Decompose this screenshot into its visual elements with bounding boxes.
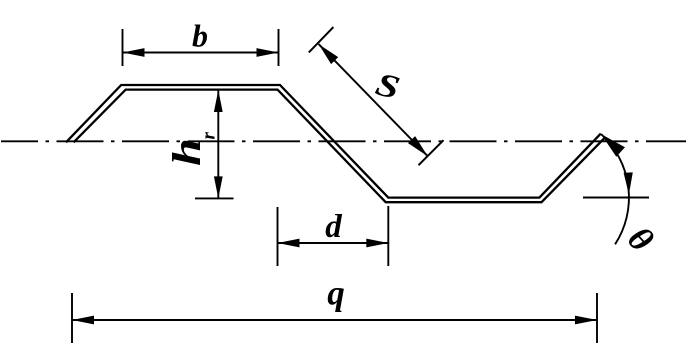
dimension S arrow bottom	[408, 136, 428, 156]
svg-text:h: h	[165, 138, 209, 166]
centerline (dash-dot axis)	[1, 140, 686, 142]
dimension q extension line left	[71, 293, 73, 343]
dimension h_r line	[217, 90, 219, 198]
dimension q arrow left	[72, 316, 94, 325]
dimension d arrow right	[366, 239, 388, 248]
svg-text:d: d	[325, 209, 342, 245]
dimension b line	[123, 52, 279, 54]
dimension S tick bottom	[419, 140, 444, 165]
angle theta reference line (bottom flange level)	[583, 197, 649, 199]
dimension b extension line left	[122, 29, 124, 66]
label theta	[620, 219, 661, 259]
label S	[372, 66, 404, 107]
dimension q extension line right	[596, 293, 598, 343]
angle theta arrow at reference line	[624, 172, 633, 194]
label q	[327, 274, 345, 313]
label b	[192, 18, 208, 54]
angle theta arrow at web	[601, 134, 625, 157]
dimension S arrow top	[319, 44, 339, 64]
dimension d extension line left	[277, 207, 279, 266]
dimension b arrow right	[257, 48, 279, 57]
dimension d arrow left	[278, 239, 300, 248]
angle theta arc	[601, 134, 629, 244]
sheet profile outer surface	[66, 85, 601, 198]
label d	[325, 209, 342, 245]
dimension q arrow right	[575, 316, 597, 325]
svg-text:θ: θ	[620, 219, 661, 259]
dimension b extension line right	[278, 29, 280, 66]
label h_r	[165, 132, 220, 167]
dimension S line	[319, 44, 428, 156]
dimension h_r bottom reference tick	[195, 197, 234, 199]
svg-text:r: r	[199, 132, 220, 140]
dimension h_r arrow up	[214, 90, 223, 112]
dimension h_r arrow down	[214, 176, 223, 198]
dimension q line	[72, 319, 597, 321]
dimension d line	[278, 242, 389, 244]
svg-text:S: S	[372, 66, 404, 107]
dimension b arrow left	[123, 48, 145, 57]
dimension S tick top	[309, 27, 334, 52]
svg-text:b: b	[192, 18, 208, 54]
dimension d extension line right	[387, 206, 389, 266]
svg-text:q: q	[327, 274, 345, 313]
sheet profile inner surface	[74, 90, 605, 203]
